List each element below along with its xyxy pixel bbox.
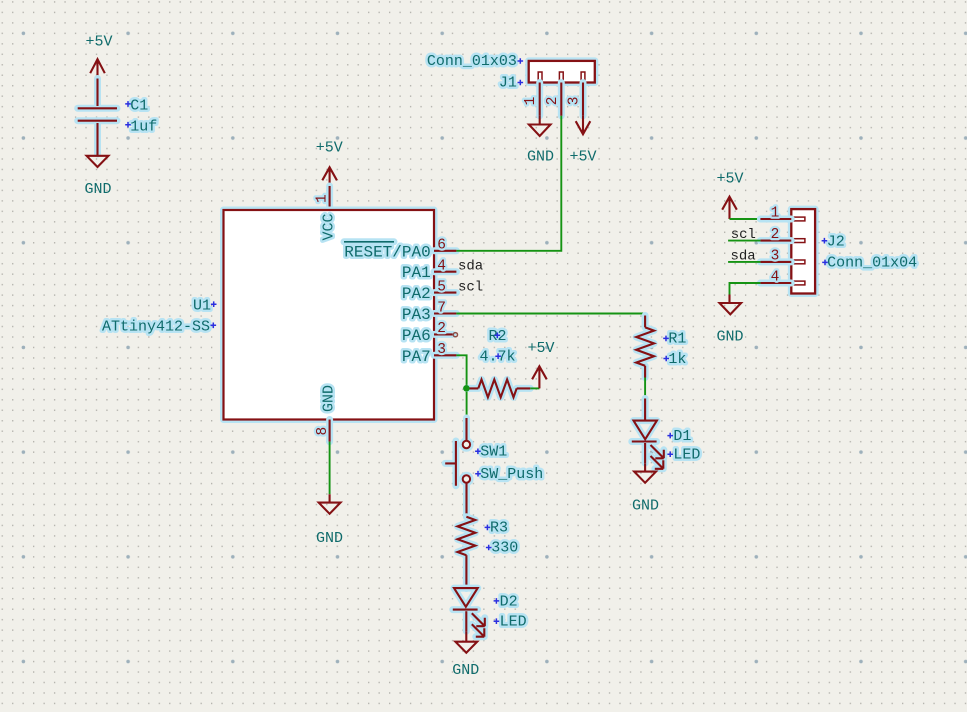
svg-text:1k: 1k — [668, 351, 686, 368]
J1 pin 1 — [523, 83, 540, 116]
SW1 value SW_Push — [475, 466, 543, 483]
connector J1 reference — [427, 53, 523, 70]
capacitor C1 — [78, 79, 117, 155]
svg-text:5: 5 — [437, 279, 446, 295]
J2 pin 3 — [760, 248, 791, 264]
junction node — [463, 385, 470, 392]
svg-text:PA3: PA3 — [402, 306, 431, 324]
LED D1 — [632, 399, 664, 469]
power +5V (top left) — [85, 34, 112, 82]
wire +5V to J2 pin1 — [730, 218, 761, 220]
J2 pin 1 — [760, 205, 791, 221]
U1 value ATtiny412-SS — [102, 319, 216, 336]
LED D2 — [453, 588, 485, 637]
connector J2 body — [791, 209, 815, 293]
power +5V down (J1 pin 3) — [569, 116, 596, 166]
ground GND (below D1) — [632, 463, 659, 514]
svg-text:PA1: PA1 — [402, 264, 431, 282]
svg-text:scl: scl — [458, 280, 483, 296]
svg-text:PA6: PA6 — [402, 327, 431, 345]
SW1 reference label — [475, 444, 507, 461]
wire U1 pin3 to junction — [456, 355, 466, 388]
svg-text:1: 1 — [315, 194, 331, 203]
svg-text:3: 3 — [437, 342, 446, 358]
svg-text:2: 2 — [771, 227, 780, 243]
svg-text:GND: GND — [452, 662, 479, 679]
svg-text:+5V: +5V — [316, 140, 343, 157]
svg-text:D1: D1 — [673, 428, 691, 445]
pin 6 stub — [434, 238, 456, 254]
resistor R1 — [636, 316, 654, 378]
svg-text:+5V: +5V — [716, 170, 743, 187]
connector J1 body — [529, 61, 595, 83]
svg-text:Conn_01x04: Conn_01x04 — [827, 255, 917, 272]
pin 7 stub — [434, 300, 456, 316]
svg-text:GND: GND — [84, 181, 111, 198]
R3 reference label — [485, 520, 508, 537]
svg-text:3: 3 — [567, 97, 583, 106]
svg-text:4: 4 — [437, 259, 446, 275]
svg-text:1uf: 1uf — [130, 118, 157, 135]
wire R2 to +5V — [530, 387, 539, 389]
power +5V (right of R2) — [527, 340, 554, 388]
svg-text:LED: LED — [673, 447, 700, 464]
svg-text:SW1: SW1 — [480, 444, 507, 461]
svg-text:J2: J2 — [827, 233, 845, 250]
svg-text:LED: LED — [500, 614, 527, 631]
ground GND (below D2) — [452, 631, 479, 679]
svg-text:PA7: PA7 — [402, 348, 431, 366]
U1 pin 8 (GND) — [315, 420, 331, 442]
ground GND (J2 pin 4) — [716, 295, 743, 346]
switch SW1 — [445, 418, 470, 517]
svg-text:2: 2 — [437, 321, 446, 337]
wire U1 pin7 to R1 — [456, 314, 645, 316]
svg-text:GND: GND — [316, 530, 343, 547]
pin 4 stub — [434, 259, 456, 275]
resistor R2 — [467, 380, 531, 398]
J1 pin 3 — [567, 83, 584, 116]
R1 reference label — [663, 331, 686, 348]
U1 reference label — [193, 298, 217, 315]
J2 pin 4 — [760, 269, 791, 285]
svg-text:U1: U1 — [193, 298, 211, 315]
resistor R3 — [458, 517, 476, 589]
power +5V (J2) — [716, 170, 743, 219]
ground GND (below C1) — [84, 154, 111, 198]
pin 2 stub (unconnected) — [434, 321, 458, 337]
svg-text:1: 1 — [523, 97, 539, 106]
svg-text:GND: GND — [321, 385, 338, 412]
D1 reference label — [667, 428, 691, 445]
IC U1 body — [224, 210, 435, 420]
wire J2 pin4 to GND — [730, 283, 761, 295]
D2 value LED — [494, 614, 527, 631]
C1 reference label — [125, 98, 148, 115]
wire J1 pin2 to U1 pin6 — [456, 116, 561, 251]
svg-text:8: 8 — [315, 427, 331, 436]
pin 3 stub — [434, 342, 456, 358]
C1 value 1uf — [125, 118, 157, 135]
wire R1 to D1 — [644, 378, 646, 399]
D2 reference label — [494, 593, 518, 610]
J1 pin 2 — [545, 83, 562, 116]
svg-text:R1: R1 — [668, 331, 686, 348]
wire pin8 to GND — [329, 442, 331, 495]
svg-text:6: 6 — [437, 238, 446, 254]
svg-text:ATtiny412-SS: ATtiny412-SS — [102, 319, 210, 336]
wire sda — [728, 261, 760, 263]
svg-text:sda: sda — [458, 259, 483, 275]
wire scl — [728, 240, 760, 242]
svg-text:SW_Push: SW_Push — [480, 466, 543, 483]
svg-text:C1: C1 — [130, 98, 148, 115]
svg-text:3: 3 — [771, 248, 780, 264]
svg-text:J1: J1 — [499, 74, 517, 91]
pin name RESET/PA0 with overline — [344, 242, 431, 261]
wire junction to SW1 — [466, 392, 468, 417]
R2 value 4.7k — [479, 349, 515, 366]
svg-text:PA2: PA2 — [402, 285, 431, 303]
svg-text:Conn_01x03: Conn_01x03 — [427, 53, 517, 70]
svg-text:D2: D2 — [500, 593, 518, 610]
svg-text:GND: GND — [632, 498, 659, 515]
power +5V (above U1 pin 1) — [316, 140, 343, 187]
svg-text:GND: GND — [716, 329, 743, 346]
R3 value 330 — [486, 540, 518, 557]
svg-text:+5V: +5V — [569, 148, 596, 165]
J2 pin 2 — [760, 227, 791, 243]
svg-text:330: 330 — [491, 540, 518, 557]
svg-text:4: 4 — [771, 269, 780, 285]
R2 reference label — [488, 328, 506, 345]
svg-text:1: 1 — [771, 205, 780, 221]
pin 5 stub — [434, 279, 456, 295]
ground GND (below U1) — [316, 494, 343, 547]
J2 reference label — [822, 233, 845, 250]
svg-text:R3: R3 — [490, 520, 508, 537]
svg-text:2: 2 — [545, 97, 561, 106]
svg-text:RESET/PA0: RESET/PA0 — [344, 243, 430, 261]
svg-text:VCC: VCC — [321, 213, 338, 240]
ground GND (J1 pin 1) — [527, 116, 554, 166]
J2 value Conn_01x04 — [822, 255, 917, 272]
R1 value 1k — [663, 351, 686, 368]
svg-text:+5V: +5V — [527, 340, 554, 357]
svg-text:GND: GND — [527, 148, 554, 165]
svg-text:7: 7 — [437, 300, 446, 316]
U1 pin 1 (VCC) — [315, 186, 331, 210]
D1 value LED — [667, 447, 700, 464]
svg-text:+5V: +5V — [85, 34, 112, 51]
